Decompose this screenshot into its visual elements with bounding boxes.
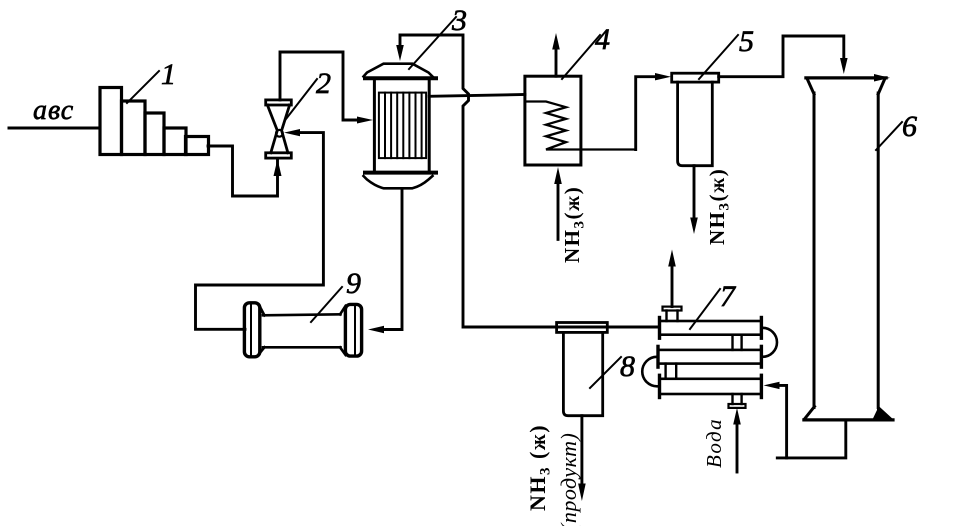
separator 5 body [678,82,713,166]
separator 5 drain line [693,166,696,218]
label 5 leader [699,35,738,79]
column 6 top right serif arrow [874,74,890,82]
water cooler 7 bottom tube [660,379,762,394]
wire exchanger 3 outlet to cooler 4 [429,95,525,97]
arrow down product [578,484,586,502]
svg-text:9: 9 [346,267,361,300]
column 6 neck flares [808,80,815,95]
svg-text:NH3 (ж): NH3 (ж) [525,424,554,511]
water cooler 7 left connecting stub [664,364,666,379]
svg-text:2: 2 [316,67,331,100]
separator 5 cap [672,73,719,82]
arrow into separator 5 [655,73,671,80]
arrow down drain 5 [690,218,698,235]
cooler 4 coil [525,102,636,150]
cooler-condenser 4 box [525,76,581,165]
vessel 9 body [263,314,341,315]
arrow into turbine waist [284,129,300,136]
svg-text:8: 8 [620,350,635,383]
svg-text:3: 3 [451,4,467,37]
label 6 leader [876,122,902,150]
water feed line [736,424,739,472]
arrow down into exchanger 3 hat [396,45,404,61]
label 9 leader [311,287,342,322]
water cooler 7 right U-bend [763,328,778,357]
vessel 9 left flange [244,303,259,357]
arrow into vessel 9 right [368,326,384,333]
wire vessel 9 to turbine waist [196,133,324,330]
water cooler 7 vent nozzle [665,311,667,322]
water cooler 7 vent line [671,266,674,307]
water cooler 7 left U-bend [642,357,657,387]
wire recycle return: exch7 top tube to exchanger3 top, with hop [400,35,660,327]
svg-text:(продукт): (продукт) [556,433,581,526]
vessel 9 right flange inner line [354,306,356,355]
wire column 6 bottom to exchanger 7 [777,420,846,458]
heat exchanger 3 top flange bar [365,76,436,80]
wire compressor out to turbine bottom [208,146,278,196]
separator 8 body [563,332,602,415]
vessel 9 right shoulder [340,306,346,315]
arrow up water [733,408,741,425]
wire cooler 4 to separator 5 [636,77,656,150]
wire авс input [9,127,100,130]
svg-text:7: 7 [720,280,737,313]
turbine/expander 2 [266,100,292,158]
arrow down into column 6 [840,58,848,74]
svg-text:1: 1 [161,58,176,91]
arrow into turbine bottom [274,159,282,176]
separator 8 cap [557,323,608,333]
column 6 bottom flares [805,407,815,420]
vessel 9 left flange inner line [250,304,252,356]
arrow into exchanger 7 bottom tube [764,382,780,389]
heat exchanger 3 shell [374,80,429,173]
svg-text:NH3(ж): NH3(ж) [560,186,588,263]
water cooler 7 right connecting stub [731,335,733,350]
cooler 4 NH3 feed line [557,184,560,239]
heat exchanger 3 bottom flange bar [365,171,436,175]
vessel 9 right flange [345,304,361,356]
column 6 top line [806,76,886,79]
svg-text:6: 6 [902,110,917,143]
wire exchanger 3 bottom to vessel 9 [384,190,402,330]
water cooler 7 top tube [660,321,762,335]
svg-text:авс: авс [33,95,74,126]
vessel 9 left shoulder [260,307,265,316]
water cooler 7 middle tube [658,350,761,364]
wire separator 5 to column 6 top [719,36,844,77]
cooler 4 vent line [555,48,558,76]
label 8 leader [590,357,621,388]
arrow up vent 4 [552,33,560,50]
svg-text:4: 4 [595,23,610,56]
heat exchanger 3 top hat [364,64,433,77]
heat exchanger 3 tube bundle [379,93,426,159]
wire turbine top to exchanger 3 inlet [280,52,360,120]
separator 8 product line [580,416,583,484]
label 7 leader [690,289,720,329]
svg-text:NH3(ж): NH3(ж) [705,168,733,245]
arrow up vent 7 [668,250,676,267]
column 6 shell walls [813,93,816,408]
compressor K1 (pos 1) stepped casing [100,88,209,155]
column 6 bottom line [804,418,893,421]
label 3 leader [409,17,456,69]
water cooler 7 bottom nozzle [731,394,733,404]
svg-text:Вода: Вода [702,418,726,468]
svg-text:5: 5 [739,25,754,58]
label 1 leader [127,71,159,103]
label 2 leader [286,79,317,119]
arrow into exchanger 3 left [357,117,373,124]
label 4 leader [562,35,600,79]
arrow up into cooler 4 [554,167,562,184]
heat exchanger 3 bottom skirt [364,176,433,188]
